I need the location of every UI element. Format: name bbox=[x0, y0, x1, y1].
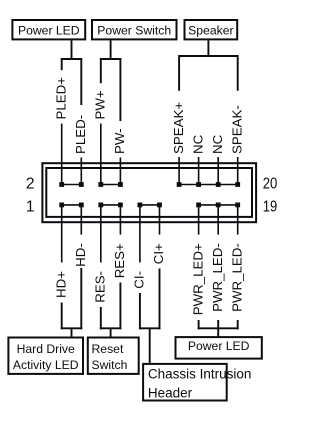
wire: Power LED stem bbox=[71, 40, 73, 59]
wire: Power Switch bracket bar bbox=[100, 58, 122, 60]
wire PLED+ to pin 2 bbox=[61, 124, 63, 185]
svg-text:HD+: HD+ bbox=[53, 271, 68, 298]
wire PWR_LED- from pin 19 bbox=[237, 205, 239, 235]
connector F_PANEL inner outline bbox=[46, 168, 252, 217]
wire PW+ upper segment bbox=[100, 58, 102, 83]
pin 18 (NC) bbox=[216, 182, 221, 187]
pin 11 (CI+) bbox=[157, 203, 162, 208]
pin-group link pins 14-20 bbox=[179, 184, 238, 186]
pin 14 (SPEAK+) bbox=[177, 182, 182, 187]
Power LED box (bottom) bbox=[176, 337, 262, 359]
wire RES+ from pin 7 bbox=[119, 205, 121, 235]
svg-text:Power LED: Power LED bbox=[18, 24, 80, 38]
wire: Reset stem bbox=[110, 328, 112, 337]
wire PWR_LED- from pin 17 bbox=[217, 205, 219, 235]
pin-pair link pins 9-11 bbox=[140, 204, 160, 206]
wire: Power LED (bottom) bracket bar bbox=[198, 327, 239, 329]
pin 9 (CI-) bbox=[138, 203, 143, 208]
pin 1 (HD+) bbox=[59, 203, 64, 208]
wire: Reset bracket bar bbox=[100, 327, 122, 329]
wire CI- lower segment bbox=[139, 293, 141, 329]
wire PWR_LED- lower segment bbox=[217, 320, 219, 329]
wire SPEAK- to pin 20 bbox=[237, 157, 239, 185]
svg-text:Activity LED: Activity LED bbox=[13, 358, 79, 372]
svg-text:PW+: PW+ bbox=[93, 90, 108, 119]
wire CI+ from pin 11 bbox=[159, 205, 161, 235]
svg-text:Header: Header bbox=[148, 385, 193, 400]
wire RES- lower segment bbox=[100, 307, 102, 329]
svg-text:RES-: RES- bbox=[93, 271, 108, 303]
pin 16 (NC) bbox=[196, 182, 201, 187]
svg-text:PWR_LED-: PWR_LED- bbox=[229, 243, 244, 312]
wire NC to pin 18 bbox=[217, 157, 219, 185]
wire: Speaker stem bbox=[207, 40, 209, 56]
wire HD+ lower segment bbox=[61, 303, 63, 330]
svg-text:PW-: PW- bbox=[112, 128, 127, 154]
wire PWR_LED+ from pin 15 bbox=[198, 205, 200, 235]
pin-pair link pins 2-4 bbox=[62, 184, 82, 186]
svg-text:2: 2 bbox=[26, 176, 35, 193]
svg-text:1: 1 bbox=[26, 199, 35, 216]
wire PW- upper segment bbox=[119, 58, 121, 121]
wire: Power LED (bottom) stem bbox=[217, 328, 219, 337]
pin 15 (PWR_LED+) bbox=[196, 203, 201, 208]
pin-pair link pins 6-8 bbox=[101, 184, 121, 186]
svg-text:Hard Drive: Hard Drive bbox=[17, 342, 75, 356]
wire: HDD stem bbox=[71, 328, 73, 337]
wire: Power Switch stem bbox=[110, 40, 112, 59]
Power LED box (top) bbox=[12, 20, 85, 39]
Reset Switch box bbox=[88, 338, 139, 374]
svg-text:PLED-: PLED- bbox=[73, 115, 88, 154]
wire HD- from pin 3 bbox=[80, 205, 82, 235]
wire: Chassis bracket bar bbox=[139, 327, 161, 329]
svg-text:PLED+: PLED+ bbox=[53, 77, 68, 120]
pin 8 (PW-) bbox=[118, 182, 123, 187]
wire CI+ lower segment bbox=[159, 269, 161, 330]
wire SPEAK+ to pin 14 bbox=[178, 157, 180, 185]
svg-text:Power LED: Power LED bbox=[188, 339, 250, 353]
wire HD+ from pin 1 bbox=[61, 205, 63, 263]
pin 3 (HD-) bbox=[79, 203, 84, 208]
svg-text:Reset: Reset bbox=[92, 342, 124, 356]
pin 4 (PLED-) bbox=[79, 182, 84, 187]
svg-text:NC: NC bbox=[210, 134, 225, 154]
svg-text:RES+: RES+ bbox=[112, 243, 127, 278]
wire RES- from pin 5 bbox=[100, 205, 102, 263]
Hard Drive Activity LED box bbox=[8, 338, 83, 374]
svg-text:PWR_LED-: PWR_LED- bbox=[210, 243, 225, 312]
Power Switch box (top) bbox=[92, 20, 177, 39]
wire RES+ lower segment bbox=[119, 283, 121, 330]
connector F_PANEL outer outline bbox=[42, 163, 256, 222]
pin 17 (PWR_LED-) bbox=[216, 203, 221, 208]
Chassis Intrusion Header box bbox=[143, 364, 251, 401]
wire PW- to pin 8 bbox=[119, 158, 121, 185]
pin-pair link pins 1-3 bbox=[62, 204, 82, 206]
wire NC to pin 16 bbox=[198, 157, 200, 185]
svg-text:CI+: CI+ bbox=[151, 243, 166, 264]
pin 19 (PWR_LED-) bbox=[235, 203, 240, 208]
wire PLED- to pin 4 bbox=[80, 158, 82, 185]
svg-text:20: 20 bbox=[263, 175, 278, 192]
pin-group link pins 15-19 bbox=[199, 204, 238, 206]
wire PWR_LED- lower segment (pin 19) bbox=[237, 320, 239, 329]
pin 5 (RES-) bbox=[98, 203, 103, 208]
wire PWR_LED+ lower segment bbox=[198, 320, 200, 329]
svg-text:PWR_LED+: PWR_LED+ bbox=[190, 243, 205, 315]
pin-pair link pins 5-7 bbox=[101, 204, 121, 206]
wire: HDD bracket bar bbox=[61, 327, 83, 329]
svg-text:NC: NC bbox=[190, 134, 205, 154]
svg-text:Power Switch: Power Switch bbox=[97, 24, 171, 38]
wire CI- from pin 9 bbox=[139, 205, 141, 263]
svg-text:Speaker: Speaker bbox=[188, 24, 233, 38]
svg-text:HD-: HD- bbox=[73, 243, 88, 267]
wire HD- lower segment bbox=[80, 268, 82, 329]
pin 20 (SPEAK-) bbox=[235, 182, 240, 187]
svg-text:SPEAK-: SPEAK- bbox=[229, 105, 244, 154]
pin 6 (PW+) bbox=[98, 182, 103, 187]
wire PLED+ upper segment bbox=[61, 58, 63, 70]
svg-text:19: 19 bbox=[263, 198, 278, 215]
svg-text:Chassis Intrusion: Chassis Intrusion bbox=[148, 367, 252, 382]
svg-text:CI-: CI- bbox=[132, 271, 147, 289]
wire: Chassis stem bbox=[149, 328, 151, 365]
svg-text:Switch: Switch bbox=[92, 358, 128, 372]
wire PLED- upper segment bbox=[80, 58, 82, 105]
Speaker box (top) bbox=[185, 20, 238, 39]
wire PW+ to pin 6 bbox=[100, 124, 102, 185]
pin 2 (PLED+) bbox=[59, 182, 64, 187]
wire: Power LED bracket bar bbox=[61, 58, 83, 60]
pin 7 (RES+) bbox=[118, 203, 123, 208]
svg-text:SPEAK+: SPEAK+ bbox=[171, 102, 186, 154]
wire: Speaker bracket bbox=[179, 56, 238, 91]
